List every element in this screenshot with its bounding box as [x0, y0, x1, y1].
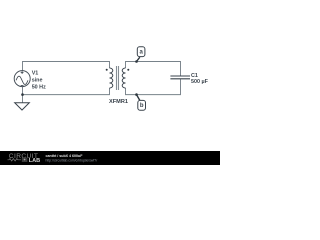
transformer core lines — [117, 66, 119, 90]
svg-text:sine: sine — [32, 77, 43, 83]
svg-text:cantht / subX 4 600uF: cantht / subX 4 600uF — [46, 154, 84, 158]
svg-text:http://circuitlab.com/c/nbqsle: http://circuitlab.com/c/nbqsle/swf7r — [46, 159, 99, 163]
transformer XFMR1 secondary winding — [122, 68, 125, 88]
transformer XFMR1 primary winding — [110, 68, 113, 88]
capacitor C1 plates — [170, 76, 190, 79]
junction dot node a — [135, 60, 138, 63]
svg-text:b: b — [140, 103, 144, 109]
logo component box — [22, 158, 28, 162]
V1 sine wave — [16, 76, 28, 84]
wire bottom-left from V1/ground junction to XFMR1 primary — [23, 87, 110, 95]
node a flag box — [137, 47, 145, 57]
wire top-right from XFMR1 secondary to C1 — [126, 62, 181, 76]
V1 plus sign — [21, 71, 24, 74]
svg-text:XFMR1: XFMR1 — [109, 99, 128, 105]
footer black bar — [0, 151, 220, 165]
junction dot at V1/ground node — [21, 93, 24, 96]
transformer primary phase dot — [106, 69, 108, 71]
svg-text:V1: V1 — [32, 70, 39, 76]
node b stem — [137, 95, 140, 101]
transformer secondary phase dot — [127, 69, 129, 71]
junction dot node b — [135, 93, 138, 96]
svg-text:+: + — [24, 158, 26, 162]
logo resistor zigzag — [8, 159, 22, 161]
node b flag box — [138, 100, 146, 110]
wire top-left from V1 to XFMR1 primary — [23, 62, 110, 71]
voltage source V1 circle — [14, 71, 30, 87]
V1 minus sign — [21, 85, 24, 87]
svg-text:500 µF: 500 µF — [191, 79, 209, 85]
wire bottom-right from XFMR1 secondary to C1 — [126, 79, 181, 94]
wire ground stem — [22, 95, 24, 103]
svg-text:50 Hz: 50 Hz — [32, 85, 46, 91]
node a stem — [137, 57, 140, 61]
svg-text:LAB: LAB — [29, 158, 41, 164]
ground — [15, 103, 30, 110]
